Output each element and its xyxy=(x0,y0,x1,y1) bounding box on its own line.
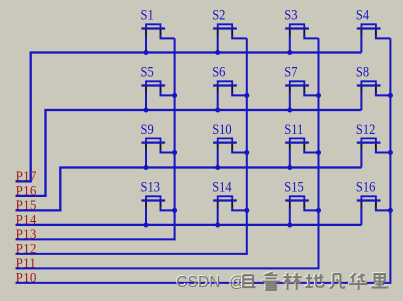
wire net P12: column 2 vertical and bottom return xyxy=(16,38,247,254)
junction column 4 / S16 branch xyxy=(388,208,393,213)
junction row 1 / S1 leg xyxy=(144,50,149,55)
svg-text:S15: S15 xyxy=(284,179,304,195)
junction row 4 / S15 leg xyxy=(287,223,292,228)
wire net P17: stub, riser and row 1 wire xyxy=(16,53,362,182)
junction row 1 / S2 leg xyxy=(215,50,220,55)
svg-text:P10: P10 xyxy=(16,270,37,286)
push-button switch S6 xyxy=(213,81,247,110)
push-button switch S12 xyxy=(357,138,391,167)
junction row 4 / S14 leg xyxy=(215,223,220,228)
svg-text:P14: P14 xyxy=(16,212,37,228)
svg-text:P11: P11 xyxy=(16,255,37,271)
watermark glyph kan xyxy=(261,272,278,289)
junction column 2 / S6 branch xyxy=(244,93,249,98)
wire net P15: stub, riser and row 3 wire xyxy=(16,168,362,211)
push-button switch S10 xyxy=(213,138,247,167)
junction column 3 / S11 branch xyxy=(316,150,321,155)
junction row 3 / S10 leg xyxy=(215,165,220,170)
push-button switch S14 xyxy=(213,196,247,225)
watermark glyph li xyxy=(370,273,387,286)
watermark glyph di xyxy=(304,273,322,286)
junction row 2 / S5 leg xyxy=(144,108,149,113)
watermark glyph fan xyxy=(329,273,344,288)
junction column 4 / S8 branch xyxy=(388,93,393,98)
junction column 1 / S9 branch xyxy=(172,150,177,155)
svg-text:S13: S13 xyxy=(141,179,161,195)
push-button switch S1 xyxy=(141,24,174,52)
push-button switch S2 xyxy=(213,24,247,52)
wire net P11: column 3 vertical and bottom return xyxy=(16,38,319,268)
svg-text:S6: S6 xyxy=(212,64,225,80)
push-button switch S9 xyxy=(141,138,174,167)
svg-text:S7: S7 xyxy=(284,64,297,80)
svg-text:S14: S14 xyxy=(212,179,232,195)
junction column 3 / S15 branch xyxy=(316,208,321,213)
svg-text:P16: P16 xyxy=(16,183,37,199)
svg-text:S10: S10 xyxy=(212,121,232,137)
watermark glyph hua xyxy=(348,272,366,289)
push-button switch S13 xyxy=(141,196,174,225)
svg-text:S5: S5 xyxy=(141,64,154,80)
svg-text:S1: S1 xyxy=(141,7,154,23)
svg-text:S9: S9 xyxy=(141,121,154,137)
svg-text:P13: P13 xyxy=(16,226,37,242)
wire net P16: stub, riser and row 2 wire xyxy=(16,110,362,196)
push-button switch S8 xyxy=(357,81,391,110)
junction row 4 / S13 leg xyxy=(144,223,149,228)
push-button switch S11 xyxy=(285,138,318,167)
svg-text:P15: P15 xyxy=(16,197,37,213)
junction row 2 / S6 leg xyxy=(215,108,220,113)
push-button switch S4 xyxy=(357,24,391,52)
wire net P14: row 4 wire xyxy=(16,224,362,226)
wire net P13: column 1 vertical and bottom return xyxy=(16,38,175,239)
watermark CSDN text xyxy=(175,273,245,291)
svg-text:S12: S12 xyxy=(356,121,375,137)
svg-text:S2: S2 xyxy=(212,7,225,23)
junction column 2 / S10 branch xyxy=(244,150,249,155)
svg-text:CSDN: CSDN xyxy=(176,274,220,291)
junction row 3 / S9 leg xyxy=(144,165,149,170)
svg-text:S16: S16 xyxy=(356,179,376,195)
svg-text:P12: P12 xyxy=(16,241,37,257)
svg-text:S11: S11 xyxy=(284,121,303,137)
push-button switch S7 xyxy=(285,81,318,110)
junction row 2 / S7 leg xyxy=(287,108,292,113)
junction column 4 / S12 branch xyxy=(388,150,393,155)
svg-text:P17: P17 xyxy=(16,168,37,184)
push-button switch S3 xyxy=(285,24,318,52)
junction column 1 / S5 branch xyxy=(172,93,177,98)
push-button switch S15 xyxy=(285,196,318,225)
watermark glyph lin xyxy=(282,272,300,289)
junction row 1 / S3 leg xyxy=(287,50,292,55)
wire net P10: column 4 vertical and bottom return xyxy=(16,38,391,283)
svg-text:S4: S4 xyxy=(356,7,369,23)
push-button switch S16 xyxy=(357,196,391,225)
watermark glyph qie xyxy=(241,274,254,286)
push-button switch S5 xyxy=(141,81,174,110)
junction column 3 / S7 branch xyxy=(316,93,321,98)
svg-text:S8: S8 xyxy=(356,64,369,80)
junction row 3 / S11 leg xyxy=(287,165,292,170)
junction column 1 / S13 branch xyxy=(172,208,177,213)
svg-text:S3: S3 xyxy=(284,7,297,23)
junction column 2 / S14 branch xyxy=(244,208,249,213)
